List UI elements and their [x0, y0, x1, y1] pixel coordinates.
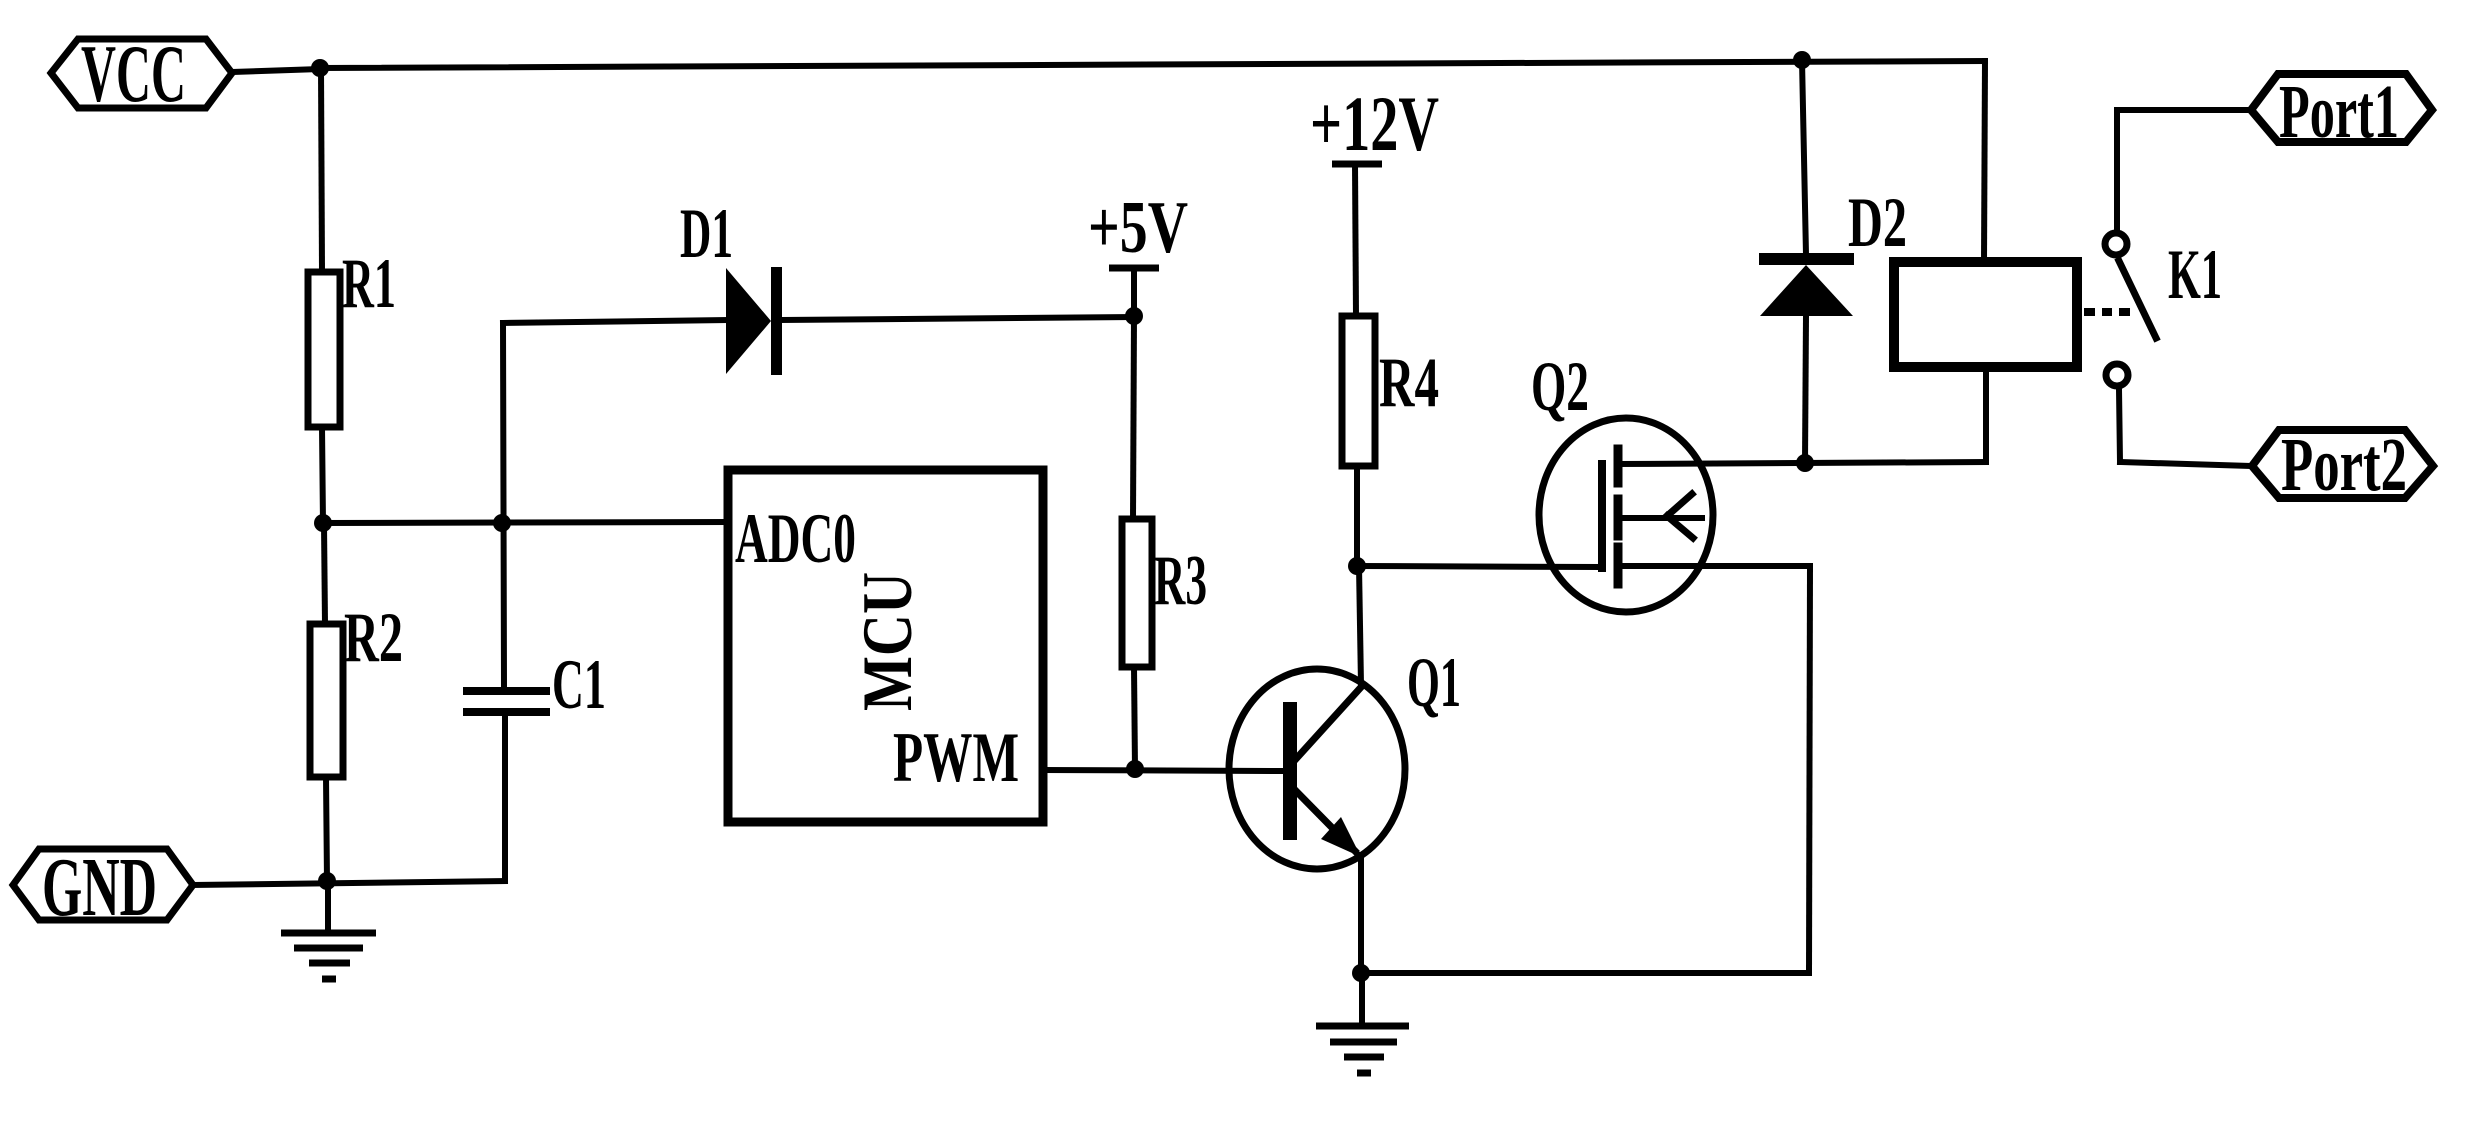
wire C1 bottom to GND wire	[502, 716, 508, 881]
svg-text:GND: GND	[42, 841, 157, 934]
node D2 top rail junction	[1793, 51, 1811, 69]
wire D2 top stem	[1802, 60, 1806, 255]
svg-text:R4: R4	[1379, 344, 1439, 422]
svg-text:D1: D1	[680, 195, 733, 273]
svg-text:+12V: +12V	[1310, 80, 1439, 167]
MCU block U1	[728, 470, 1043, 822]
node B junction on ADC0 wire	[493, 514, 511, 532]
node GND junction	[318, 872, 336, 890]
node PWM/R3 junction	[1126, 760, 1144, 778]
relay K1 coil	[1894, 262, 2077, 367]
wire Q1 emitter down	[1358, 855, 1364, 973]
node drain/D2 junction	[1796, 454, 1814, 472]
svg-text:R3: R3	[1154, 542, 1207, 620]
wire D1 anode vertical branch	[503, 323, 504, 688]
svg-text:VCC: VCC	[81, 28, 186, 119]
capacitor C1	[463, 646, 606, 724]
wire emitter to ground	[1359, 973, 1365, 1026]
node A junction R1/R2/ADC0	[314, 514, 332, 532]
wire ADC0 horizontal	[323, 522, 728, 523]
wire top VCC rail	[320, 61, 1985, 68]
port flag Port1	[2251, 70, 2432, 154]
wire Port1 to switch	[2117, 107, 2251, 113]
svg-text:+5V: +5V	[1088, 187, 1188, 269]
wire gate node to Q2 gate	[1357, 566, 1599, 567]
wire source loop bottom	[1361, 970, 1809, 976]
wire D1 anode horizontal	[503, 320, 726, 323]
transistor Q1	[1229, 644, 1461, 869]
svg-text:C1: C1	[552, 646, 606, 724]
ground flag GND	[13, 841, 193, 934]
wire R3 bottom to PWM wire	[1134, 667, 1135, 769]
wire VCC flag to rail	[232, 69, 321, 72]
diode D1	[680, 195, 782, 375]
node gate junction	[1348, 557, 1366, 575]
svg-text:Port2: Port2	[2281, 423, 2407, 507]
wire relay top stem	[1984, 61, 1985, 262]
port flag Port2	[2252, 423, 2433, 507]
relay K1 contact switch	[2084, 233, 2222, 386]
wire D1 cathode to +5V node	[782, 317, 1133, 320]
resistor R2	[310, 599, 403, 777]
wire source loop vertical	[1809, 566, 1810, 973]
svg-text:MCU: MCU	[849, 572, 927, 711]
resistor R3	[1122, 519, 1207, 667]
wire PWM output to Q1 base	[1043, 770, 1283, 771]
node emitter junction	[1352, 964, 1370, 982]
power +12V	[1310, 80, 1439, 316]
transistor Q2	[1531, 348, 1713, 612]
wire R2 bottom to GND node	[326, 777, 327, 881]
wire switch to Port2	[2119, 389, 2120, 462]
wire VCC stem down to R1	[321, 68, 322, 272]
wire +5V node to R3	[1133, 316, 1134, 519]
node +5V junction	[1125, 307, 1143, 325]
ground symbol left	[281, 933, 376, 979]
resistor R1	[308, 245, 396, 427]
svg-text:Q1: Q1	[1407, 644, 1461, 722]
svg-text:Port1: Port1	[2279, 70, 2399, 154]
svg-text:R2: R2	[344, 599, 403, 677]
wire Q1 collector up	[1359, 566, 1361, 685]
wire GND stem	[325, 881, 331, 933]
svg-text:K1: K1	[2168, 236, 2222, 314]
wire node A to R2	[324, 524, 325, 624]
wire R4 bottom to gate node	[1354, 466, 1360, 566]
wire relay bottom stem	[1983, 367, 1989, 462]
svg-text:ADC0: ADC0	[735, 500, 856, 578]
ground symbol right	[1316, 1026, 1409, 1073]
node VCC rail junction	[311, 59, 329, 77]
svg-text:PWM: PWM	[893, 719, 1019, 797]
diode D2	[1759, 184, 1907, 316]
svg-text:Q2: Q2	[1531, 348, 1589, 426]
wire GND flag to C1 branch	[193, 881, 505, 885]
resistor R4	[1342, 316, 1439, 466]
svg-text:R1: R1	[342, 245, 396, 323]
wire Q2 source horizontal	[1618, 563, 1810, 569]
power +5V	[1088, 187, 1188, 316]
wire Q2 drain horizontal	[1618, 462, 1986, 464]
wire D2 bottom stem	[1805, 316, 1806, 462]
power flag VCC	[51, 28, 232, 119]
wire R1 bottom to node A	[322, 427, 323, 524]
svg-text:D2: D2	[1848, 184, 1907, 262]
